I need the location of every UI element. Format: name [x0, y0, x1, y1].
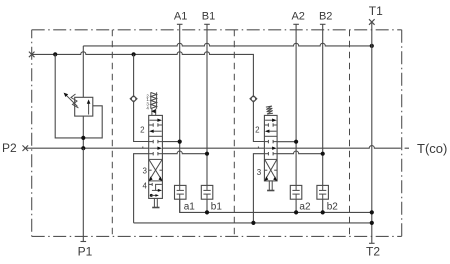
- node B1 junction: [205, 152, 209, 156]
- node A1 junction: [178, 140, 182, 144]
- port T1 line with X plug: [369, 19, 375, 25]
- svg-text:4: 4: [142, 181, 147, 190]
- node P2 line junction: [81, 146, 85, 150]
- port B2 line: [320, 23, 326, 25]
- svg-text:T1: T1: [369, 4, 383, 18]
- wire bypass and pilot loop of relief valve: [55, 54, 102, 137]
- relief valve RV1: [75, 97, 93, 116]
- svg-text:B2: B2: [319, 10, 332, 22]
- valve V1 spring: [151, 92, 157, 115]
- wire B2 service line: [277, 151, 323, 154]
- port A1 line: [177, 23, 183, 25]
- svg-text:a2: a2: [299, 201, 311, 212]
- enclosure border: [32, 30, 402, 237]
- valve V2 spring: [266, 106, 273, 114]
- port P2 X plug: [23, 145, 29, 151]
- svg-text:A2: A2: [291, 10, 304, 22]
- valve V1 position 3 cross internals: [149, 160, 163, 181]
- node P junction x=133.6: [132, 52, 136, 56]
- wire lower tank rail: [134, 222, 372, 224]
- wire check valve 1 to valve1 P port: [134, 102, 149, 142]
- wire P1 line: [82, 148, 84, 241]
- valve V2 drain to tank: [267, 181, 274, 191]
- valve V2 neutral internals: [264, 140, 277, 156]
- svg-text:3: 3: [142, 166, 147, 175]
- section divider section1/section2: [233, 30, 235, 237]
- svg-text:3: 3: [257, 168, 262, 177]
- node relief pilot junction: [81, 136, 85, 140]
- svg-text:b2: b2: [327, 201, 339, 212]
- valve V2 body: [264, 115, 277, 180]
- relief valve adjustment spring+arrow: [71, 94, 79, 108]
- svg-text:B1: B1: [202, 10, 215, 22]
- svg-text:P1: P1: [78, 245, 93, 259]
- port X plug top-left: [29, 52, 35, 58]
- shock valve a1: [175, 185, 187, 199]
- wire valve1 T port to tank rail: [134, 154, 149, 223]
- node a2 on tank rail: [294, 210, 298, 214]
- port B1 line: [204, 23, 210, 25]
- svg-text:P2: P2: [2, 141, 17, 155]
- wire relief valve bottom to P2 line: [82, 116, 84, 148]
- node valve2 drain on lower tank rail: [251, 221, 255, 225]
- valve V1 body: [149, 115, 163, 198]
- valve V1 spool position numbers 2 1 3 4: [146, 93, 149, 110]
- port tick T2: [369, 242, 375, 244]
- wire A2 service line: [277, 141, 296, 143]
- port tick before valve1: [142, 147, 144, 149]
- shock valve b1: [201, 185, 213, 199]
- wire upper tank rail: [180, 199, 372, 213]
- valve V1 position 2 internals: [149, 119, 163, 133]
- node A2 junction: [294, 140, 298, 144]
- node tank rail to T2: [370, 210, 374, 214]
- section divider section2/outlet: [349, 30, 351, 237]
- wire relief-to-tank line y=45.9: [83, 43, 372, 46]
- wire A1 service line: [162, 141, 179, 143]
- node b1 on tank rail: [205, 210, 209, 214]
- wire P2 main through line: [25, 146, 409, 149]
- port tick before valve2: [257, 147, 259, 149]
- svg-text:T2: T2: [366, 245, 380, 259]
- svg-text:2: 2: [140, 125, 145, 134]
- valve V1 neutral internals: [149, 140, 163, 156]
- wire P supply line y=54.4: [32, 52, 254, 96]
- svg-text:A1: A1: [174, 10, 187, 22]
- svg-text:b1: b1: [211, 201, 223, 212]
- port A2 line: [293, 23, 299, 25]
- valve V2 position 3 cross internals: [264, 160, 277, 181]
- wire valve2 T port to tank rail: [253, 154, 264, 223]
- shock valve a2: [290, 185, 302, 199]
- port tick P1: [81, 241, 87, 243]
- node P junction x=55: [53, 52, 57, 56]
- node b2 on tank rail: [321, 210, 325, 214]
- svg-text:2: 2: [255, 125, 260, 134]
- check valve CV2: [250, 96, 257, 102]
- node tank junction on T1 line: [370, 44, 374, 48]
- wire relief riser: [82, 46, 84, 97]
- node B2 junction: [321, 152, 325, 156]
- shock valve b2: [317, 185, 329, 199]
- section divider inlet/section1: [111, 30, 113, 237]
- valve V2 position 2 internals: [264, 119, 277, 133]
- valve V1 position 4 float internals: [149, 183, 162, 197]
- check valve CV1: [133, 54, 135, 95]
- svg-text:a1: a1: [184, 201, 196, 212]
- node lower tank rail to T2: [370, 221, 374, 225]
- wire check valve 2 to valve2 P port: [253, 102, 264, 142]
- wire B1 service line: [162, 151, 207, 154]
- valve V1 drain to tank: [152, 198, 159, 207]
- svg-text:T(co): T(co): [417, 141, 447, 156]
